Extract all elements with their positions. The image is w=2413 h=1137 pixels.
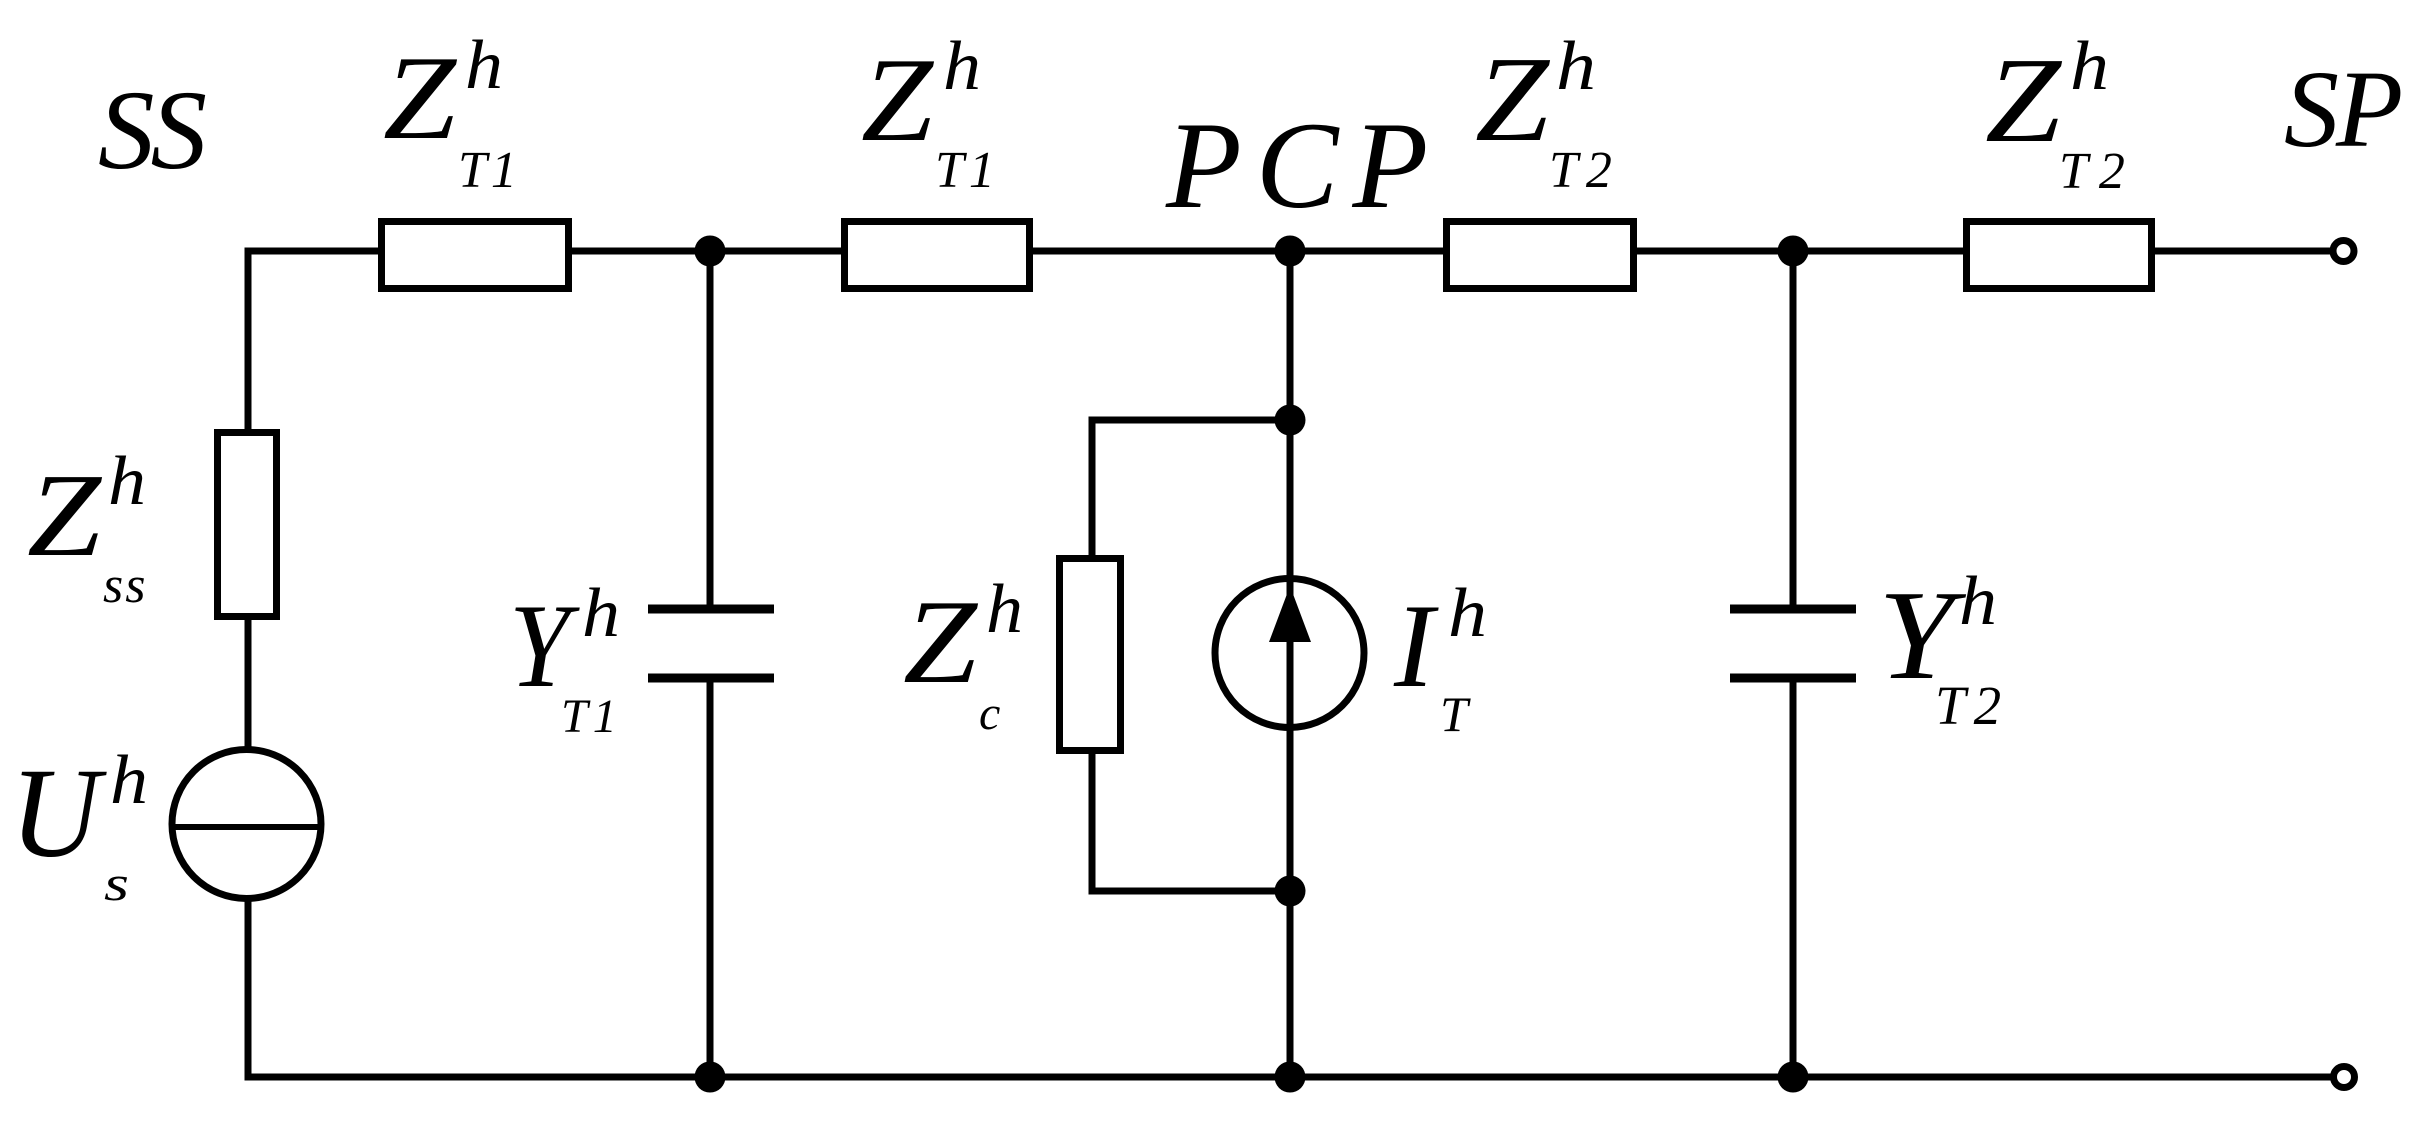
wire shunt branch node A (x=710) upper segment — [707, 251, 714, 609]
terminal bottom right — [2334, 1067, 2355, 1088]
node dot bottom rail x=710 — [695, 1062, 726, 1093]
svg-text:h: h — [108, 443, 146, 520]
voltage source Uhs circle — [172, 750, 321, 899]
svg-text:SP: SP — [2284, 48, 2401, 170]
svg-text:T2: T2 — [1549, 142, 1620, 199]
svg-text:PCP: PCP — [1165, 97, 1442, 234]
wire shunt branch node A lower segment — [707, 678, 714, 1077]
svg-text:h: h — [110, 742, 148, 819]
wire shunt branch node B lower segment — [1790, 678, 1797, 1077]
capacitor YhT2 bottom plate — [1730, 674, 1856, 683]
current source IhT arrow — [1269, 586, 1311, 642]
wire shunt branch node B (x=1793) upper segment — [1790, 251, 1797, 609]
svg-text:h: h — [2070, 28, 2109, 105]
resistor Zhc (vertical, middle parallel branch) — [1060, 559, 1121, 751]
wire Zc parallel loop — [1092, 420, 1290, 891]
svg-text:h: h — [465, 27, 503, 104]
svg-text:T1: T1 — [458, 142, 521, 199]
voltage source Uhs chord line — [172, 824, 321, 830]
resistor ZhT2 second (series, top rail) — [1967, 222, 2152, 289]
capacitor YhT2 top plate — [1730, 605, 1856, 614]
svg-text:Z: Z — [27, 449, 103, 581]
svg-text:T2: T2 — [1935, 675, 2009, 736]
capacitor YhT1 bottom plate — [648, 674, 774, 683]
svg-text:SS: SS — [98, 68, 206, 193]
svg-text:h: h — [1959, 563, 1997, 640]
node dot top rail x=710 — [695, 236, 726, 267]
svg-text:T1: T1 — [561, 690, 622, 743]
node dot PCP top rail x=1290 — [1275, 236, 1306, 267]
svg-text:h: h — [986, 571, 1023, 648]
svg-text:Z: Z — [903, 575, 978, 708]
node dot bottom rail x=1793 — [1778, 1062, 1809, 1093]
svg-text:Z: Z — [383, 31, 457, 164]
svg-text:T2: T2 — [2059, 143, 2136, 200]
resistor ZhT2 first (series, top rail) — [1447, 222, 1634, 289]
svg-text:Z: Z — [861, 33, 934, 166]
node dot Zc branch top — [1275, 405, 1306, 436]
node dot Zc branch bottom — [1275, 876, 1306, 907]
svg-text:Z: Z — [1985, 33, 2062, 168]
svg-text:h: h — [943, 28, 981, 105]
svg-text:Z: Z — [1475, 32, 1550, 167]
svg-text:h: h — [1448, 575, 1487, 652]
svg-text:T: T — [1440, 686, 1471, 742]
wire PCP vertical branch — [1287, 251, 1294, 1077]
svg-text:s: s — [104, 855, 129, 911]
current source IhT circle — [1215, 579, 1364, 728]
svg-text:c: c — [979, 687, 1000, 740]
svg-text:ss: ss — [103, 557, 147, 614]
svg-text:T1: T1 — [935, 142, 1000, 199]
resistor ZhT1 second (series, top rail) — [845, 222, 1030, 289]
node dot top rail x=1793 — [1778, 236, 1809, 267]
svg-text:h: h — [582, 575, 620, 652]
resistor ZhT1 first (series, top rail) — [382, 222, 569, 289]
node dot bottom rail x=1290 — [1275, 1062, 1306, 1093]
resistor Zhss (left branch, vertical) — [218, 433, 277, 617]
svg-text:U: U — [10, 742, 107, 884]
svg-text:h: h — [1556, 28, 1596, 105]
svg-text:I: I — [1393, 579, 1439, 712]
capacitor YhT1 top plate — [648, 605, 774, 614]
wire top rail, left vertical, bottom rail (main loop) — [248, 251, 2332, 1077]
terminal SP top right — [2333, 241, 2354, 262]
